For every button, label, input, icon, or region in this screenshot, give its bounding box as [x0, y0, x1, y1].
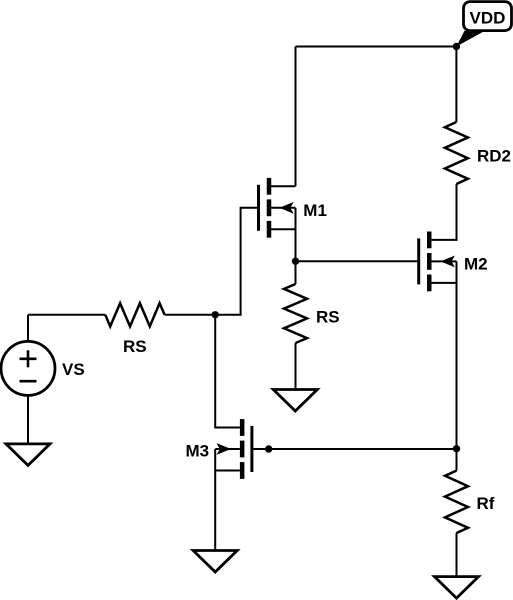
- resistor Rf: [445, 471, 468, 533]
- power flag VDD: [456, 2, 511, 47]
- wire: RS to input node: [165, 314, 216, 316]
- svg-text:VDD: VDD: [470, 9, 506, 28]
- wire: M1 drain riser to VDD rail: [295, 47, 297, 187]
- svg-text:RS: RS: [316, 307, 340, 326]
- wire: M1 source down to node: [295, 229, 297, 261]
- wire: node down to RS resistor: [295, 261, 297, 284]
- svg-text:VS: VS: [62, 360, 85, 379]
- ground (below VS): [6, 444, 50, 466]
- svg-text:M3: M3: [186, 442, 210, 461]
- node: VDD junction dot: [453, 43, 460, 50]
- wire: Rf node down to Rf: [456, 449, 458, 471]
- svg-text:M2: M2: [464, 254, 488, 273]
- wire: top VDD rail: [296, 46, 457, 48]
- wire: M3 gate to Rf node: [252, 448, 457, 450]
- svg-text:RS: RS: [123, 337, 147, 356]
- transistor M2: [419, 232, 457, 292]
- transistor M3 (mirrored): [215, 419, 252, 479]
- wire: input node down to M3 drain: [215, 315, 240, 428]
- wire: input node to M1 gate: [215, 208, 258, 315]
- wire: VS bottom to ground: [27, 395, 29, 444]
- node: M1 source junction dot: [292, 258, 299, 265]
- ground (below Rf): [435, 577, 479, 599]
- wire: M2 source down to Rf node: [456, 283, 458, 449]
- svg-text:RD2: RD2: [477, 147, 511, 166]
- wire: RS bottom to ground: [295, 343, 297, 390]
- resistor RS (center vertical): [284, 284, 307, 343]
- ground (below M3): [193, 551, 237, 573]
- resistor RD2: [445, 122, 468, 184]
- node: input junction dot: [212, 311, 219, 318]
- wire: RD2 bottom to M2 drain: [431, 184, 456, 240]
- wire: VDD node down to RD2 top: [455, 47, 457, 123]
- resistor RS (input horizontal): [105, 303, 164, 326]
- voltage source VS: [1, 315, 55, 396]
- transistor M1: [259, 178, 296, 238]
- wire: VS to RS input: [28, 314, 105, 316]
- ground (below center RS): [273, 390, 317, 412]
- node: Rf junction dot: [453, 445, 460, 452]
- svg-text:Rf: Rf: [477, 494, 495, 513]
- wire: M3 source down to ground: [214, 471, 216, 551]
- wire: Rf bottom to ground: [456, 533, 458, 577]
- node: M3 gate wire dot: [265, 445, 272, 452]
- svg-text:M1: M1: [303, 201, 327, 220]
- wire: node to M2 gate: [296, 260, 419, 262]
